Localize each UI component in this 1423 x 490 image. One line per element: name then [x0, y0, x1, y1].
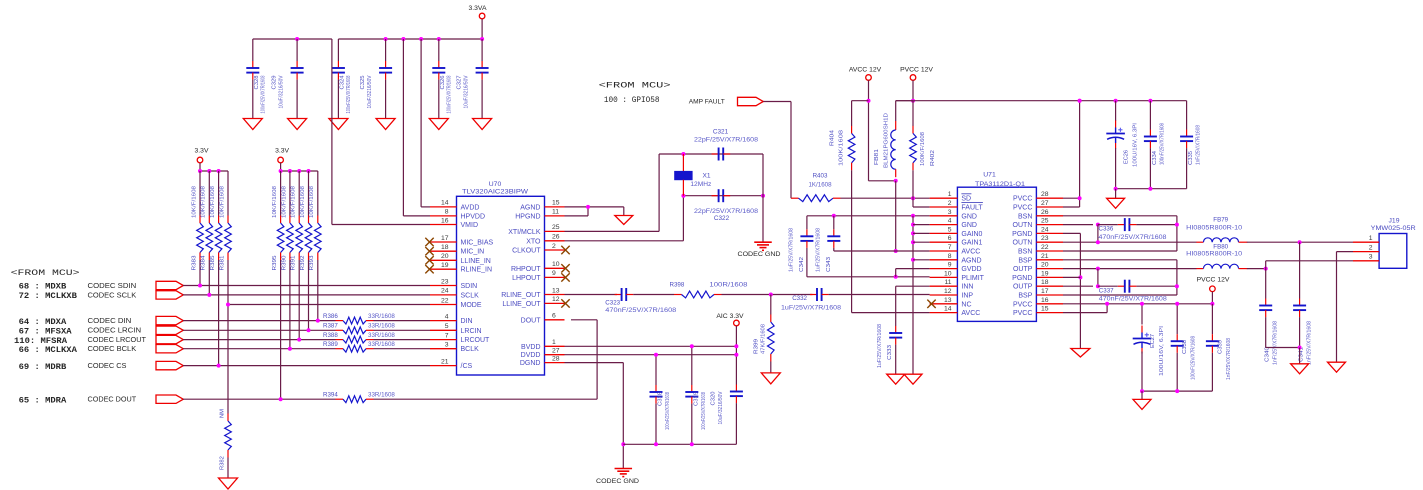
- pin 7 LRCOUT stub: [430, 339, 457, 341]
- junction: [419, 37, 423, 41]
- junction FB80-C340: [1264, 267, 1268, 271]
- off-page connector CODEC BCLK: [156, 345, 183, 353]
- pin 10 PLIMIT stub: [930, 276, 958, 278]
- junction C341: [1298, 240, 1302, 244]
- pin 5 GAIN0 stub: [930, 232, 958, 234]
- svg-text:C342: C342: [799, 257, 805, 272]
- svg-text:1nF/25V/X7R/1608: 1nF/25V/X7R/1608: [1226, 338, 1232, 380]
- junction AIC-BVDD: [734, 344, 738, 348]
- svg-text:R383: R383: [191, 256, 197, 271]
- svg-text:BSP: BSP: [1018, 293, 1032, 300]
- svg-text:BCLK: BCLK: [461, 346, 480, 353]
- svg-text:72 : MCLKXB: 72 : MCLKXB: [19, 292, 78, 301]
- wire HPVDD horizontal: [403, 215, 430, 217]
- capacitor EC26: [1106, 121, 1138, 168]
- svg-text:PVCC: PVCC: [1013, 205, 1032, 212]
- svg-text:DGND: DGND: [520, 360, 541, 367]
- resistor R389 33R/1608: [323, 341, 395, 352]
- wire BSP tie lower: [1176, 260, 1178, 295]
- svg-text:19: 19: [1041, 270, 1049, 277]
- wire BSN pin26: [1063, 215, 1177, 217]
- off-page connector CODEC SCLK: [156, 291, 183, 299]
- wire PVCC pin15 riser: [1106, 304, 1108, 313]
- svg-text:10K/F/1608: 10K/F/1608: [210, 186, 216, 218]
- capacitor C337: [1118, 280, 1137, 293]
- wire R395 top: [280, 171, 282, 216]
- pin 23 SDIN stub: [430, 285, 457, 287]
- svg-text:C343: C343: [826, 257, 832, 272]
- svg-text:20: 20: [441, 253, 449, 260]
- wire gnd stem: [1115, 189, 1117, 199]
- junction EC27 rail: [1140, 302, 1144, 306]
- pin 24 PGND stub: [1036, 232, 1063, 234]
- svg-text:CLKOUT: CLKOUT: [512, 248, 541, 255]
- svg-text:CODEC BCLK: CODEC BCLK: [88, 346, 137, 353]
- svg-text:1: 1: [948, 191, 952, 198]
- junction: [279, 169, 283, 173]
- wire INN row: [896, 285, 930, 287]
- svg-text:3.3V: 3.3V: [195, 148, 209, 155]
- wire AVCC stem: [868, 80, 870, 181]
- wire FB79 to J19: [1247, 241, 1353, 243]
- pin 2 FAULT stub: [930, 206, 958, 208]
- svg-text:18: 18: [1041, 279, 1049, 286]
- capacitor C339: [1206, 334, 1232, 380]
- svg-text:33R/1608: 33R/1608: [368, 323, 395, 330]
- wire C341 bottom: [1299, 317, 1301, 347]
- wire C329 to ground: [296, 80, 298, 119]
- svg-text:AVDD: AVDD: [461, 204, 480, 211]
- svg-text:13: 13: [944, 297, 952, 304]
- svg-text:TLV320AIC23BIPW: TLV320AIC23BIPW: [462, 189, 528, 196]
- junction C338 rail: [1175, 302, 1179, 306]
- pin 19 PGND stub: [1036, 276, 1063, 278]
- wire CODEC DOUT left: [183, 398, 336, 400]
- wire GND row pin3: [807, 215, 930, 217]
- wire PVCC rail bottom: [1063, 303, 1212, 305]
- svg-text:HPGND: HPGND: [515, 213, 540, 220]
- power flag PVCC 12V right: [1197, 276, 1230, 291]
- wire C342 bottom: [806, 248, 808, 277]
- wire BSP pin17: [1063, 294, 1177, 296]
- wire HPGND up: [587, 207, 589, 216]
- wire R382 to ground: [227, 458, 229, 479]
- wire C343 top: [833, 216, 835, 230]
- junction DGND rail: [621, 442, 625, 446]
- pin 6 DOUT stub: [545, 319, 565, 321]
- svg-text:2: 2: [1369, 244, 1373, 251]
- wire rail to ground: [1299, 348, 1301, 364]
- wire R388 to codec: [374, 339, 431, 341]
- svg-text:7: 7: [445, 332, 449, 339]
- wire PVCC to FB81: [896, 100, 913, 102]
- resistor R404 100K/1608: [848, 126, 855, 170]
- capacitor C333: [889, 326, 902, 345]
- svg-text:1nF/25V/X7R/1608: 1nF/25V/X7R/1608: [1273, 321, 1279, 365]
- off-page connector CODEC CS: [156, 361, 183, 369]
- svg-text:100nF/25V/X7R/1608: 100nF/25V/X7R/1608: [1159, 123, 1165, 165]
- svg-text:CODEC SDIN: CODEC SDIN: [88, 283, 137, 290]
- resistor R384 10K/F/1608: [201, 186, 213, 271]
- svg-text:PGND: PGND: [1012, 231, 1032, 238]
- junction pullup: [297, 338, 301, 342]
- wire J19 pin3: [1266, 260, 1353, 262]
- resistor R392 10K/F/1608: [300, 186, 312, 271]
- wire R387 to codec: [374, 329, 431, 331]
- svg-text:26: 26: [552, 234, 560, 241]
- svg-text:FB81: FB81: [874, 149, 880, 165]
- junction PVCC: [911, 99, 915, 103]
- wire R394 to DOUT jog: [374, 398, 598, 400]
- wire row to R389: [183, 348, 336, 350]
- svg-text:10K/F/1608: 10K/F/1608: [291, 186, 297, 218]
- pin 5 LRCIN stub: [430, 329, 457, 331]
- resistor R382 NM: [225, 414, 232, 458]
- junction GVDD-PLIMIT: [894, 275, 898, 279]
- svg-text:R402: R402: [930, 150, 936, 166]
- wire bus to C324: [337, 39, 339, 61]
- wire row to R388: [183, 339, 336, 341]
- svg-text:17: 17: [1041, 288, 1049, 295]
- wire DOUT horizontal: [571, 319, 597, 321]
- pin 25 OUTN stub: [1036, 224, 1063, 226]
- svg-text:HI0805R800R-10: HI0805R800R-10: [1186, 251, 1243, 257]
- pin 16 PVCC stub: [1036, 303, 1063, 305]
- wire HPVDD vertical: [402, 39, 404, 216]
- svg-text:J19: J19: [1389, 218, 1400, 225]
- wire CODEC SCLK: [183, 294, 430, 296]
- svg-text:100nF/25V/X7R/1608: 100nF/25V/X7R/1608: [1191, 336, 1197, 380]
- svg-text:100nF/25V/X7R/1608: 100nF/25V/X7R/1608: [665, 392, 671, 430]
- svg-text:12: 12: [944, 288, 952, 295]
- capacitor C334: [1144, 123, 1166, 165]
- junction SD-R402: [911, 196, 915, 200]
- capacitor C342: [800, 229, 813, 248]
- wire AVCC to R404: [852, 100, 869, 102]
- svg-text:6: 6: [552, 313, 556, 320]
- wire OUTN tie: [1097, 225, 1099, 243]
- wire R404 bottom long: [851, 170, 853, 312]
- pin 8 AGND stub: [930, 259, 958, 261]
- svg-text:25: 25: [552, 224, 560, 231]
- svg-text:C332: C332: [792, 295, 807, 302]
- resistor R403 1K/1608: [791, 195, 841, 202]
- pin 1 SD stub: [930, 197, 958, 199]
- svg-text:20: 20: [1041, 262, 1049, 269]
- pin 22 BSN stub: [1036, 250, 1063, 252]
- svg-text:AGND: AGND: [961, 257, 981, 264]
- wire PVCC rail top: [896, 100, 1187, 102]
- wire BSN tie upper: [1176, 216, 1178, 251]
- svg-text:PVCC: PVCC: [1013, 310, 1032, 317]
- wire R391 top: [298, 171, 300, 216]
- svg-text:10K/F/1608: 10K/F/1608: [281, 186, 287, 218]
- wire C333 bottom: [895, 345, 897, 375]
- svg-text:3: 3: [1369, 254, 1373, 261]
- no-connect pin 19: [425, 265, 433, 273]
- wire C339 bottom: [1211, 353, 1213, 391]
- svg-text:R389: R389: [323, 341, 338, 348]
- ground C325: [376, 119, 395, 130]
- wire CODEC MODE: [228, 304, 430, 306]
- pin 9 GVDD stub: [930, 268, 958, 270]
- wire C336 left: [1098, 224, 1118, 226]
- pin 14 AVCC stub: [930, 312, 958, 314]
- svg-text:<FROM MCU>: <FROM MCU>: [11, 268, 80, 278]
- svg-text:22: 22: [1041, 244, 1049, 251]
- capacitor C320: [711, 385, 743, 425]
- ground C333: [887, 374, 905, 384]
- power flag AIC 3.3V: [716, 313, 744, 326]
- wire C336 right: [1136, 224, 1177, 226]
- junction C319-BVDD: [690, 344, 694, 348]
- svg-text:PVCC 12V: PVCC 12V: [1197, 276, 1230, 283]
- wire EC26 gnd rail: [1116, 188, 1187, 190]
- wire R385 to CS: [218, 260, 220, 366]
- svg-text:CODEC LRCOUT: CODEC LRCOUT: [88, 337, 147, 344]
- svg-text:U71: U71: [983, 172, 996, 179]
- wire R392 to LRCIN: [308, 260, 310, 330]
- junction crystal bottom: [681, 194, 685, 198]
- junction C337-BSP: [1175, 284, 1179, 288]
- svg-text:U70: U70: [489, 181, 502, 188]
- svg-text:R381: R381: [219, 256, 225, 271]
- wire bus to C327: [481, 39, 483, 61]
- wire C328 to ground: [252, 80, 254, 119]
- wire C340 bottom: [1265, 317, 1267, 347]
- wire R383 to SDIN: [199, 260, 201, 286]
- svg-text:28: 28: [1041, 191, 1049, 198]
- wire AGND: [565, 206, 624, 208]
- svg-text:C340: C340: [1265, 347, 1271, 362]
- svg-text:27: 27: [552, 348, 560, 355]
- wire BVDD row: [565, 345, 737, 347]
- off-page connector CODEC LRCOUT: [156, 335, 183, 343]
- svg-text:FB79: FB79: [1213, 217, 1228, 224]
- svg-text:C323: C323: [605, 299, 620, 306]
- svg-text:RLINE_OUT: RLINE_OUT: [501, 292, 541, 299]
- pin 4 DIN stub: [430, 320, 457, 322]
- svg-text:68 : MDXB: 68 : MDXB: [19, 283, 67, 292]
- svg-text:PLIMIT: PLIMIT: [961, 275, 984, 282]
- wire PGND pin19: [1063, 276, 1080, 278]
- svg-text:GVDD: GVDD: [961, 266, 981, 273]
- svg-text:9: 9: [552, 270, 556, 277]
- wire DOUT vertical: [596, 320, 598, 399]
- svg-text:1nF/25V/X7R/1608: 1nF/25V/X7R/1608: [1307, 321, 1313, 365]
- wire GAIN1 row: [913, 241, 930, 243]
- svg-text:AVCC 12V: AVCC 12V: [849, 66, 882, 73]
- resistor R398 100R/1608: [674, 291, 722, 298]
- pin 20 LLINE_IN stub: [430, 259, 457, 261]
- svg-text:INN: INN: [961, 284, 973, 291]
- wire C341 column top: [1299, 242, 1301, 298]
- wire EC26 bottom: [1115, 148, 1117, 189]
- svg-text:AVCC: AVCC: [961, 310, 980, 317]
- junction OUTP: [1096, 284, 1100, 288]
- junction GND tie: [911, 214, 915, 218]
- wire R402 top: [912, 101, 914, 126]
- junction C338 gnd: [1175, 389, 1179, 393]
- svg-text:13: 13: [552, 287, 560, 294]
- svg-text:5: 5: [445, 323, 449, 330]
- svg-text:OUTP: OUTP: [1013, 284, 1033, 291]
- resistor R395 10K/F/1608: [272, 186, 284, 271]
- wire C323 to R398: [633, 294, 674, 296]
- junction C318-DVDD: [654, 353, 658, 357]
- svg-text:MIC_BIAS: MIC_BIAS: [461, 240, 494, 247]
- svg-text:1uF/25V/X7R/1608: 1uF/25V/X7R/1608: [877, 324, 883, 368]
- pin 21 BSP stub: [1036, 259, 1063, 261]
- wire AVCC row: [834, 250, 930, 252]
- svg-text:C318: C318: [658, 392, 664, 406]
- svg-text:CODEC CS: CODEC CS: [88, 363, 127, 370]
- svg-text:1: 1: [552, 339, 556, 346]
- svg-text:HI0805R800R-10: HI0805R800R-10: [1186, 226, 1243, 232]
- svg-text:1: 1: [1369, 235, 1373, 242]
- svg-text:8: 8: [445, 209, 449, 216]
- wire C338 top: [1176, 304, 1178, 334]
- no-connect pin 18: [425, 247, 433, 255]
- svg-text:BSP: BSP: [1018, 257, 1032, 264]
- wire row to R386: [183, 320, 336, 322]
- wire R390 top: [289, 171, 291, 216]
- svg-text:PVCC 12V: PVCC 12V: [900, 66, 933, 73]
- svg-text:10uF/3216/50V: 10uF/3216/50V: [367, 75, 373, 108]
- junction R381-MODE: [226, 303, 230, 307]
- ground J19 pin2: [1328, 362, 1346, 372]
- wire C318 bottom: [655, 404, 657, 445]
- junction R398-R399: [769, 293, 773, 297]
- wire C340 column top: [1265, 261, 1267, 299]
- ground R382: [219, 478, 238, 489]
- wire BSP pin21: [1063, 259, 1177, 261]
- svg-text:10: 10: [552, 261, 560, 268]
- svg-text:C336: C336: [1099, 226, 1114, 233]
- svg-text:LLINE_OUT: LLINE_OUT: [502, 301, 541, 308]
- junction GND tie: [911, 223, 915, 227]
- capacitor C341: [1293, 299, 1306, 318]
- capacitor C321: [712, 148, 731, 161]
- svg-text:69 : MDRB: 69 : MDRB: [19, 363, 67, 372]
- svg-text:10K/F/1608: 10K/F/1608: [191, 186, 197, 218]
- resistor R391 10K/F/1608: [291, 186, 303, 271]
- pin 18 OUTP stub: [1036, 285, 1063, 287]
- svg-text:OUTN: OUTN: [1013, 240, 1033, 247]
- wire C339 top: [1211, 304, 1213, 334]
- capacitor C338: [1171, 334, 1197, 380]
- junction pullup: [316, 319, 320, 323]
- svg-text:2: 2: [948, 200, 952, 207]
- wire R404 top: [851, 101, 853, 126]
- capacitor C328: [246, 61, 266, 114]
- svg-text:C339: C339: [1217, 340, 1223, 354]
- svg-text:PGND: PGND: [1012, 275, 1032, 282]
- wire PVCC riser: [1079, 101, 1081, 207]
- inductor FB80 HI0805R800R-10: [1196, 264, 1247, 268]
- svg-text:470nF/25V/X7R/1608: 470nF/25V/X7R/1608: [1099, 235, 1168, 241]
- wire OUTN pin25: [1063, 224, 1093, 226]
- no-connect pin 17: [425, 238, 433, 246]
- svg-text:BSN: BSN: [1018, 213, 1032, 220]
- svg-text:C321: C321: [713, 129, 729, 136]
- no-connect pin 12: [561, 299, 569, 307]
- junction PVCC rail: [1114, 99, 1118, 103]
- junction: [198, 169, 202, 173]
- capacitor C324: [332, 61, 352, 114]
- wire AVDD horizontal: [421, 206, 430, 208]
- wire AMP FAULT vertical: [790, 102, 792, 199]
- resistor R388 33R/1608: [323, 332, 395, 343]
- wire crystal gnd vertical: [762, 154, 764, 242]
- svg-text:INP: INP: [961, 293, 973, 300]
- junction pin28: [1078, 196, 1082, 200]
- wire PGND column: [1079, 233, 1081, 348]
- svg-text:21: 21: [441, 358, 449, 365]
- svg-text:100 : GPIO58: 100 : GPIO58: [604, 96, 660, 105]
- svg-text:CODEC DIN: CODEC DIN: [88, 318, 132, 325]
- wire R393 to DIN: [317, 260, 319, 321]
- pin 20 OUTP stub: [1036, 268, 1063, 270]
- wire C337 left: [1098, 285, 1118, 287]
- svg-text:SDIN: SDIN: [461, 283, 478, 290]
- svg-text:R398: R398: [670, 282, 685, 289]
- wire XTI vertical: [658, 154, 660, 231]
- pin 1 BVDD stub: [545, 345, 565, 347]
- svg-text:470nF/25V/X7R/1608: 470nF/25V/X7R/1608: [1099, 297, 1168, 303]
- junction OUTN: [1096, 223, 1100, 227]
- svg-text:470nF/25V/X7R/1608: 470nF/25V/X7R/1608: [605, 308, 677, 314]
- svg-text:C319: C319: [693, 392, 699, 406]
- svg-text:C334: C334: [1152, 150, 1158, 165]
- svg-text:100nF/25V/X7R/1608: 100nF/25V/X7R/1608: [261, 75, 267, 113]
- wire C334 top: [1149, 101, 1151, 130]
- svg-text:AMP FAULT: AMP FAULT: [689, 99, 725, 106]
- wire EC27 top: [1141, 304, 1143, 325]
- wire bottom bank gnd rail: [1142, 390, 1212, 392]
- svg-text:BLM21PG600SH1D: BLM21PG600SH1D: [884, 113, 890, 168]
- wire EC27 bottom: [1141, 352, 1143, 392]
- svg-text:FAULT: FAULT: [961, 205, 983, 212]
- wire C340-C341 rail: [1266, 347, 1300, 349]
- junction: [297, 169, 301, 173]
- junction AIC-DVDD: [734, 353, 738, 357]
- junction PVCC rail: [1148, 99, 1152, 103]
- svg-text:12: 12: [552, 296, 560, 303]
- svg-text:22pF/25V/X7R/1608: 22pF/25V/X7R/1608: [694, 137, 759, 143]
- svg-text:R385: R385: [210, 256, 216, 271]
- wire C333 top: [895, 286, 897, 326]
- resistor R390 10K/F/1608: [281, 186, 293, 271]
- wire C324 to ground: [337, 80, 339, 119]
- svg-text:C320: C320: [711, 392, 717, 406]
- svg-text:100nF/25V/X7R/1608: 100nF/25V/X7R/1608: [701, 392, 707, 430]
- capacitor C336: [1118, 218, 1137, 231]
- svg-text:C324: C324: [339, 75, 345, 90]
- ground PGND: [1071, 349, 1090, 358]
- wire C342 top: [806, 216, 808, 230]
- svg-text:R399: R399: [754, 339, 760, 354]
- svg-text:DIN: DIN: [461, 318, 473, 325]
- svg-text:65 : MDRA: 65 : MDRA: [19, 396, 67, 405]
- wire XTI: [565, 230, 660, 232]
- resistor R385 10K/F/1608: [210, 186, 222, 271]
- wire cap bank rail: [623, 443, 736, 445]
- svg-text:CODEC DOUT: CODEC DOUT: [88, 397, 137, 404]
- svg-text:XTO: XTO: [526, 238, 541, 245]
- wire FAULT jog h: [913, 206, 930, 208]
- svg-text:10uF/3216/50V: 10uF/3216/50V: [718, 391, 724, 424]
